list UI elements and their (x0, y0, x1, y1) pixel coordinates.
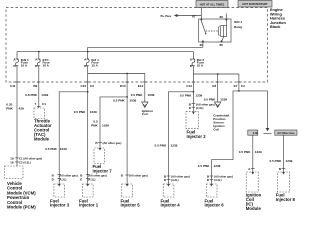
svg-text:Coil: Coil (213, 127, 219, 131)
svg-text:Injector 2: Injector 2 (187, 134, 207, 139)
wire tap down to E8 (217, 74, 219, 82)
svg-text:Injector 3: Injector 3 (50, 203, 70, 208)
injector 6 dashed box (206, 184, 217, 197)
svg-text:(4.3L): (4.3L) (59, 177, 67, 181)
svg-text:(All other gas): (All other gas) (129, 174, 148, 178)
wire corner down to E7 (238, 74, 240, 82)
fuse INJ 1 15A (84, 58, 99, 69)
svg-text:Module (PCM): Module (PCM) (7, 205, 36, 210)
injector 7 pin B (98, 142, 102, 144)
header wire under fuse INJ1 (88, 73, 145, 75)
junction block dashed border (6, 8, 268, 83)
svg-text:C11: C11 (10, 84, 16, 88)
off-page arrow (E8) (215, 102, 221, 108)
svg-text:0.5 PNK: 0.5 PNK (154, 144, 166, 148)
svg-text:E8: E8 (212, 84, 216, 88)
injector 3 dashed box (54, 184, 65, 197)
svg-text:1039: 1039 (102, 123, 109, 127)
wire fuse2 to B9 crossing (38, 66, 40, 82)
svg-text:0.5 PNK: 0.5 PNK (269, 159, 281, 163)
junction dot fuse2 tap (38, 51, 40, 53)
svg-text:Coil: Coil (142, 112, 148, 116)
wire tap down to D10 (126, 74, 128, 83)
VCM pin 19 C1 (15, 157, 19, 159)
wire branch to injector 3 (59, 92, 87, 184)
choice arrow (266, 128, 270, 131)
label box 4.3L (248, 130, 259, 135)
VCM name (7, 181, 36, 210)
svg-text:(All other gas): (All other gas) (103, 141, 122, 145)
injector 7 dashed box (94, 148, 105, 164)
wire corner down to E12 (144, 74, 146, 83)
svg-text:(4.3L): (4.3L) (171, 178, 179, 182)
relay switch (201, 21, 206, 34)
Engine Wiring Harness Junction Block label (270, 8, 287, 29)
svg-text:(4.3L): (4.3L) (88, 177, 96, 181)
svg-text:0.5 PNK: 0.5 PNK (113, 99, 125, 103)
svg-text:IGN 1: IGN 1 (234, 20, 242, 24)
relay coil (218, 26, 219, 36)
wire bus corner down to fuse 3 (192, 52, 194, 59)
svg-text:D10: D10 (120, 84, 126, 88)
injector 4 dashed box (163, 184, 174, 197)
injector 2 pins (192, 103, 196, 105)
fuse INJ 2 15A (190, 58, 205, 69)
wire C13 down to injector 2 (192, 82, 194, 112)
wire E8 down to arrow, 0.5 PNK 1239 (217, 82, 219, 102)
VCM connector dashed box (5, 166, 24, 179)
junction dot injector4 branch (193, 91, 195, 93)
wire branch to B+ bus arrow (161, 14, 202, 18)
injector 5 dashed box (122, 184, 133, 197)
junction dot injector3 branch (87, 91, 89, 93)
IC module name (246, 193, 262, 212)
relay IGN 1 (192, 14, 242, 48)
svg-text:0.5 PNK: 0.5 PNK (180, 94, 192, 98)
lower bus wire (17, 51, 193, 53)
svg-text:HOT IN RUN/START: HOT IN RUN/START (242, 2, 268, 6)
wire E7 left arm to injector 6 (212, 91, 239, 184)
svg-text:85: 85 (220, 43, 224, 47)
svg-text:1039: 1039 (90, 110, 97, 114)
junction dot D10 tap (126, 73, 128, 75)
TAC connector dashed box (34, 108, 45, 119)
svg-text:86: 86 (220, 15, 224, 19)
svg-text:0.5 PNK: 0.5 PNK (45, 147, 57, 151)
svg-text:C13: C13 (186, 84, 192, 88)
off-page arrow (E12) (142, 102, 148, 108)
injector 8 dashed box (278, 172, 290, 192)
svg-text:C1: C1 (42, 102, 46, 106)
svg-text:10 A: 10 A (21, 64, 28, 68)
wire E12 down to arrow (144, 82, 146, 102)
junction dot E8 tap (217, 73, 219, 75)
svg-text:1239: 1239 (286, 159, 293, 163)
svg-text:C10: C10 (81, 84, 87, 88)
wire branch to injector 7 (100, 97, 127, 148)
svg-text:B9: B9 (33, 84, 37, 88)
svg-text:Module: Module (246, 206, 262, 211)
svg-text:Relay: Relay (234, 25, 243, 29)
TAC pin 7 C1 (37, 105, 41, 107)
relay dashed link (206, 30, 218, 32)
junction dot injector7 branch (126, 96, 128, 98)
svg-text:B+ Bus: B+ Bus (161, 14, 172, 18)
injector 2 dashed box (186, 112, 198, 129)
wire branch to injector 4 (169, 92, 194, 184)
svg-text:10 A: 10 A (43, 64, 50, 68)
wire D10 down to injector 5 (126, 82, 128, 184)
IC module dashed box (246, 172, 258, 192)
svg-text:C2: C2 (241, 84, 245, 88)
fuse IGN 1 10A (13, 58, 29, 69)
svg-text:Injector 5: Injector 5 (121, 203, 141, 208)
pin 86 stub (225, 14, 227, 20)
svg-text:All Other Gas: All Other Gas (277, 131, 295, 135)
injector 5 pin B (125, 174, 129, 176)
svg-text:HOT AT ALL TIMES: HOT AT ALL TIMES (200, 2, 225, 6)
injector 8 pin B (282, 168, 286, 170)
wire B9 to TAC, 0.8 PNK 1339 (38, 82, 40, 108)
svg-text:439: 439 (19, 106, 24, 110)
wire 4.3L to IC module, 0.5 PNK 1239 (252, 135, 254, 172)
svg-text:Module: Module (34, 137, 50, 142)
svg-text:E7: E7 (234, 84, 238, 88)
svg-text:E12: E12 (138, 84, 144, 88)
label box HOT AT ALL TIMES (196, 1, 228, 8)
svg-text:PNK: PNK (6, 106, 13, 110)
svg-text:0.5 PNK: 0.5 PNK (198, 164, 210, 168)
svg-text:7: 7 (34, 102, 36, 106)
junction dot bus/fuse4 (87, 51, 89, 53)
wire fuse1 to C11 crossing (16, 66, 18, 82)
svg-text:87: 87 (192, 15, 196, 19)
svg-text:16: 16 (10, 161, 14, 165)
E8 arrow destination label (213, 113, 229, 131)
svg-text:1039: 1039 (60, 147, 67, 151)
VCM pin 16 C2 (15, 161, 19, 163)
svg-text:1239: 1239 (220, 97, 227, 101)
svg-text:0.5 PNK: 0.5 PNK (131, 93, 143, 97)
injector 1 pins (86, 174, 90, 176)
wire C10 main down to injector 1 (87, 82, 89, 184)
fuse ETC 10A (35, 58, 50, 69)
wire All Other Gas to injector 8, 0.5 PNK 1239 (283, 135, 285, 172)
svg-text:E: E (80, 177, 82, 181)
header wire under fuse INJ2 (193, 73, 239, 75)
svg-text:1239: 1239 (255, 150, 262, 154)
bus step vertical at x=87.7 (87, 47, 89, 59)
svg-text:1239: 1239 (171, 144, 178, 148)
svg-text:0.8 PNK: 0.8 PNK (25, 93, 37, 97)
svg-text:15 A: 15 A (197, 64, 204, 68)
injector 6 pins (210, 175, 214, 177)
svg-text:C2: C2 (90, 84, 94, 88)
svg-text:Injector 1: Injector 1 (79, 203, 99, 208)
wire E7 right arm to engine split (239, 91, 268, 128)
wire relay pin30 to upper bus (202, 42, 204, 47)
wire from HOT AT ALL TIMES to relay pin 87 (200, 8, 202, 20)
svg-text:PNK: PNK (91, 123, 98, 127)
svg-text:C2 (4.3L): C2 (4.3L) (19, 161, 31, 165)
label box All Other Gas (275, 130, 297, 135)
wire bus tap down to fuse 2 (38, 52, 40, 59)
wire E7 down and split (238, 82, 240, 91)
TAC name (34, 119, 52, 142)
connector ticks at dashed border (15, 81, 241, 83)
wire fuse INJ2 down (192, 66, 194, 82)
svg-text:Block: Block (270, 25, 281, 29)
svg-text:Injector 8: Injector 8 (276, 197, 296, 202)
svg-text:1239: 1239 (195, 94, 202, 98)
injector 1 dashed box (82, 184, 93, 197)
svg-text:0.5 PNK: 0.5 PNK (204, 97, 216, 101)
svg-text:1239: 1239 (214, 164, 221, 168)
svg-text:15 A: 15 A (91, 64, 98, 68)
svg-text:Injector 6: Injector 6 (205, 203, 225, 208)
label box HOT IN RUN AND START (238, 1, 272, 8)
wire bus corner down to fuse 1 (16, 52, 18, 59)
svg-text:4.3L: 4.3L (253, 131, 259, 135)
svg-text:1039: 1039 (129, 99, 136, 103)
wire fuse INJ1 down (87, 66, 89, 82)
injector 3 pins (57, 174, 61, 176)
wire C11 to VCM, 0.35 PNK 439 (16, 82, 18, 167)
svg-text:0.5 PNK: 0.5 PNK (74, 110, 86, 114)
IC module pin A (251, 168, 255, 170)
svg-text:1039: 1039 (148, 93, 155, 97)
injector 4 pins (167, 175, 171, 177)
svg-text:Injector 4: Injector 4 (161, 203, 181, 208)
upper bus wire (88, 46, 203, 48)
svg-text:(4.3L): (4.3L) (196, 106, 204, 110)
svg-text:1339: 1339 (41, 93, 48, 97)
svg-text:(4.3L): (4.3L) (214, 178, 222, 182)
svg-text:0.5 PNK: 0.5 PNK (239, 150, 251, 154)
